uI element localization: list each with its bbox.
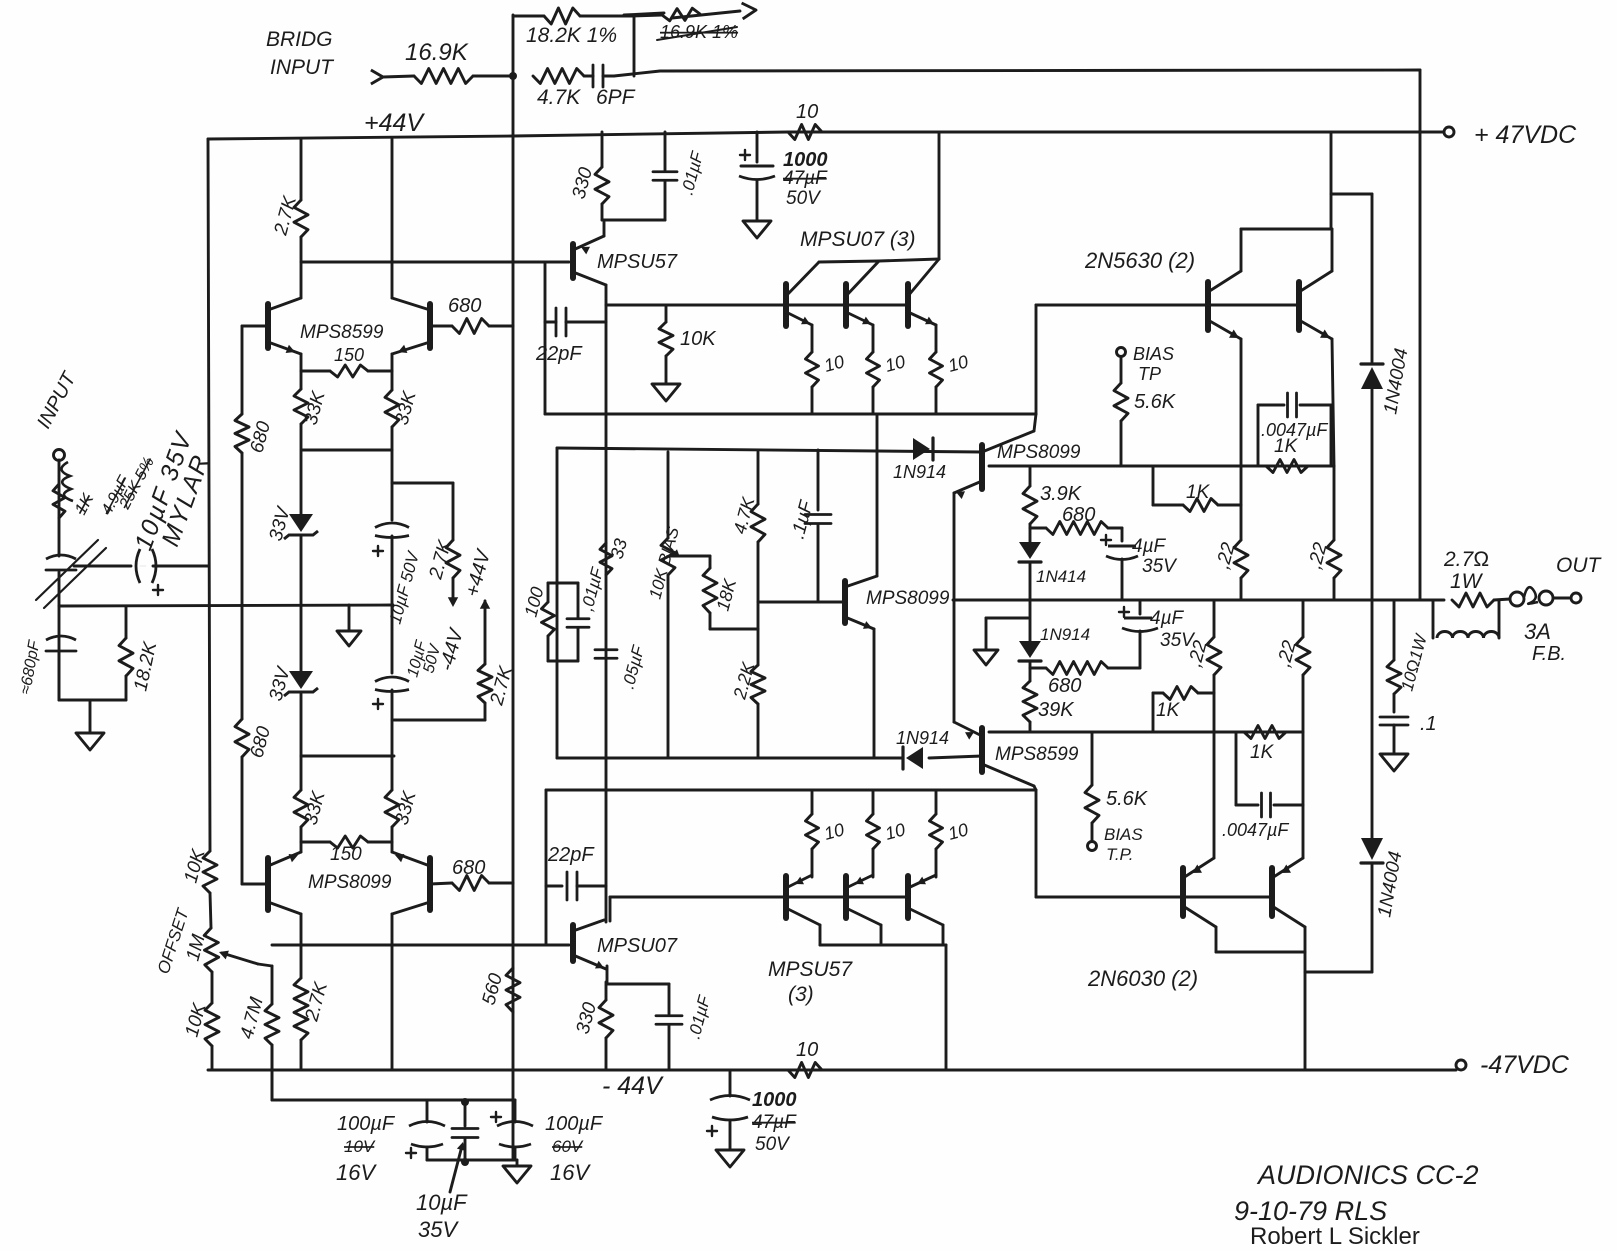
- label 2N5630 (2): [1084, 248, 1195, 273]
- svg-text:4.7K: 4.7K: [537, 86, 581, 109]
- capacitor .1uF: [788, 450, 831, 602]
- resistor 1K (bias chain): [1266, 436, 1308, 473]
- svg-text:2.7Ω: 2.7Ω: [1443, 548, 1489, 571]
- label OFFSET: [154, 905, 193, 976]
- svg-text:5.6K: 5.6K: [1106, 788, 1149, 810]
- resistor 150 (lower emitters): [301, 836, 392, 865]
- resistor 10K (MPSU57 load): [659, 305, 717, 384]
- resistor 5.6K upper: [1114, 383, 1177, 466]
- wire MPSU57 emitter column: [605, 305, 608, 922]
- ground 1000uF bottom: [716, 1150, 744, 1167]
- svg-text:BIAS: BIAS: [1133, 344, 1174, 364]
- svg-text:+ 47VDC: + 47VDC: [1474, 121, 1577, 149]
- resistor 2.2K: [729, 629, 765, 758]
- label INPUT: [33, 367, 81, 432]
- wire 18.2K to 16.9K: [624, 13, 664, 15]
- wire MPSU57 base line: [301, 261, 569, 264]
- capacitor 10uF 35V middle: [416, 1098, 478, 1242]
- wire lower driver bus: [546, 789, 1036, 792]
- capacitor 100uF 16V right: [491, 1100, 604, 1185]
- wire offset to caps: [272, 1045, 515, 1100]
- resistor 2.7K to +44V: [478, 663, 517, 720]
- svg-text:47µF: 47µF: [752, 1112, 797, 1133]
- wire pot wiper to 4.7M: [258, 964, 272, 966]
- resistor 10 e: [867, 790, 908, 877]
- wire arrow out: [672, 3, 756, 19]
- resistor .22 d: [1274, 600, 1310, 858]
- diode 1N914 vert upper: [1019, 542, 1086, 600]
- resistor 330 (upper): [569, 132, 609, 220]
- svg-text:16.9K 1%: 16.9K 1%: [660, 22, 738, 42]
- transistor Q MPSU07 lower: [573, 920, 606, 969]
- capacitor 10uF mylar: [136, 549, 163, 595]
- resistor 4.7K (bias): [730, 452, 765, 629]
- svg-text:50V: 50V: [755, 1134, 791, 1155]
- svg-text:MPSU57: MPSU57: [768, 958, 853, 981]
- potentiometer 1M: [183, 928, 258, 972]
- transistor Q MPS8599 right: [392, 298, 430, 354]
- svg-text:5.6K: 5.6K: [1134, 391, 1177, 413]
- capacitor 10uF 50V upper: [373, 523, 423, 626]
- resistor 10 (top rail): [788, 101, 822, 140]
- wire bias chain lower: [989, 731, 1303, 734]
- wire cap to left rail: [153, 565, 208, 568]
- resistor 10K (lower offset): [182, 1000, 219, 1046]
- svg-text:MPSU07: MPSU07: [597, 935, 678, 957]
- label MPSU07 (3): [800, 228, 916, 251]
- svg-text:10µF: 10µF: [416, 1190, 468, 1215]
- wire feedback top horizontal: [614, 70, 1420, 76]
- wire input lower vertical: [58, 636, 61, 700]
- wire 16.9K to node: [473, 75, 513, 78]
- label 680 lower: [1048, 675, 1081, 697]
- svg-text:INPUT: INPUT: [270, 56, 335, 79]
- transistor Q MPS8099 upper: [954, 414, 1036, 499]
- svg-text:.0047µF: .0047µF: [1222, 820, 1289, 840]
- label +44V: [364, 109, 425, 137]
- wire MPSU07 base bus: [606, 304, 908, 307]
- transistor Q MPSU57: [573, 236, 606, 285]
- capacitor .0047uF lower: [1222, 732, 1303, 840]
- svg-text:2N6030 (2): 2N6030 (2): [1087, 966, 1198, 991]
- wire MPSU57 emitter drop: [605, 285, 608, 305]
- wire 2N5630 collector bus: [1241, 132, 1332, 271]
- capacitor .01uF (lower): [656, 984, 715, 1070]
- resistor 10 a: [806, 325, 847, 414]
- ground diode node: [974, 618, 1028, 665]
- svg-text:MPS8599: MPS8599: [300, 322, 384, 343]
- svg-text:4µF: 4µF: [1132, 536, 1167, 557]
- terminal +47VDC: [1444, 121, 1577, 149]
- svg-text:MPSU57: MPSU57: [597, 251, 678, 273]
- resistor 680 (bias lower): [1030, 662, 1140, 675]
- label 25K 5% (crossed): [116, 454, 158, 512]
- wire mid bus (left): [59, 605, 393, 606]
- resistor 10 d: [806, 790, 847, 877]
- diode 1N4004 lower: [1305, 600, 1406, 972]
- resistor 150 (upper emitters): [301, 345, 392, 377]
- label MPS8099 upper: [997, 442, 1081, 463]
- resistor 680 (upper base left): [235, 326, 275, 605]
- svg-text:10K: 10K: [680, 328, 717, 350]
- wire 22pF column lower: [545, 790, 548, 945]
- svg-text:OUT: OUT: [1556, 554, 1603, 577]
- resistor .22 a: [1213, 339, 1248, 600]
- wire 22pF column to bus: [544, 322, 547, 414]
- wire bias column: [556, 448, 559, 758]
- wire 2N6030 base bus: [1036, 790, 1272, 897]
- wire +44V reference arrow: [462, 546, 496, 664]
- resistor 10 b: [867, 325, 908, 414]
- resistor 18.2K 1%: [513, 8, 634, 47]
- svg-text:100µF: 100µF: [545, 1113, 604, 1135]
- wire vas emitter: [873, 629, 876, 758]
- label AUDIONICS CC-2: [1256, 1160, 1479, 1190]
- inductor output coil: [1433, 600, 1499, 638]
- resistor 680 (lower base left): [235, 605, 275, 884]
- transistor Q MPSU57 a: [786, 875, 820, 945]
- ground 1000uF top: [743, 221, 771, 238]
- wire lower collector chain: [820, 945, 946, 1070]
- capacitor 680pF: [17, 636, 76, 696]
- svg-text:Robert L Sickler: Robert L Sickler: [1250, 1223, 1420, 1250]
- resistor 1K (fb upper): [1153, 466, 1241, 512]
- wire vas base: [758, 601, 843, 604]
- resistor .22 b: [1305, 339, 1341, 600]
- wire top divider run: [634, 15, 662, 16]
- svg-text:35V: 35V: [418, 1217, 459, 1242]
- wire bootstrap top bracket: [392, 482, 453, 485]
- svg-text:22pF: 22pF: [535, 343, 583, 365]
- capacitor .01uF (upper): [653, 132, 708, 220]
- svg-text:1N414: 1N414: [1036, 567, 1086, 586]
- node feedback junction: [509, 72, 517, 80]
- svg-text:1N914: 1N914: [1040, 625, 1090, 644]
- ground bottom caps: [503, 1160, 531, 1183]
- label MPSU57 (3): [768, 958, 853, 1006]
- transistor Q MPS8099 left (lower): [268, 852, 301, 914]
- svg-text:BIAS: BIAS: [1104, 825, 1143, 844]
- wire cap2 to 150 node: [391, 720, 394, 756]
- label MPSU07 lower: [597, 935, 678, 957]
- label MPS8099 lower: [308, 872, 392, 893]
- transistor Q 2N6030 b: [1272, 858, 1305, 927]
- wire -44V/-47V rail: [208, 1069, 1456, 1072]
- ground mid bus: [337, 605, 361, 646]
- svg-text:150: 150: [334, 345, 364, 365]
- transistor Q 2N5630 b: [1299, 271, 1332, 339]
- wire input vertical: [58, 460, 61, 636]
- resistor 2.7K to -44V: [425, 483, 468, 673]
- capacitor 4uF 35V upper: [1101, 528, 1178, 600]
- resistor 33K (upper right): [385, 371, 421, 520]
- svg-text:680: 680: [1048, 675, 1081, 697]
- transistor Q MPS8099 (vas): [845, 576, 877, 629]
- svg-text:680: 680: [1062, 504, 1095, 526]
- resistor 4.7M: [237, 966, 279, 1100]
- wire diode bus lower: [557, 757, 903, 760]
- terminal BIAS TP upper: [1117, 344, 1175, 384]
- label 680 upper: [1062, 504, 1095, 526]
- resistor 100: [521, 583, 578, 661]
- transistor Q MPSU07 a: [786, 262, 819, 326]
- wire MPSU07 emitter drop: [607, 966, 669, 984]
- wire 1N4004 branch: [1331, 193, 1372, 196]
- svg-text:MPS8099: MPS8099: [308, 872, 392, 893]
- resistor 18.2K: [119, 607, 161, 700]
- svg-text:1K: 1K: [1186, 482, 1211, 503]
- resistor 16.9K: [405, 39, 473, 84]
- wire +44V/+47V rail: [208, 132, 1444, 139]
- wire MPSU07 base line: [272, 944, 569, 947]
- svg-text:16V: 16V: [336, 1160, 377, 1185]
- resistor 33K (lower right): [385, 756, 421, 842]
- wire 330/.01 node: [602, 220, 665, 236]
- svg-text:- 44V: - 44V: [602, 1072, 664, 1100]
- wire output rail: [953, 599, 1444, 602]
- terminal BIAS TP lower: [1088, 825, 1144, 864]
- wire MPSU07 collector chain: [819, 132, 939, 262]
- svg-text:6PF: 6PF: [596, 86, 636, 109]
- zener 33V lower: [266, 605, 318, 756]
- diode 1N4004 upper: [1361, 194, 1412, 600]
- wire central vertical rail: [512, 15, 515, 1158]
- wire bootstrap bottom bracket: [394, 719, 485, 722]
- transistor Q MPS8099 right (lower): [392, 852, 430, 914]
- wire feedback right vertical: [1419, 70, 1422, 600]
- resistor 10K (upper offset): [181, 846, 217, 893]
- svg-text:1N914: 1N914: [896, 728, 949, 748]
- resistor 2.7ohm 1W: [1443, 548, 1494, 607]
- wire lower base stub left: [242, 883, 268, 886]
- wire vas collector: [876, 414, 879, 576]
- svg-text:1K: 1K: [1250, 742, 1275, 763]
- wire bias column lower: [556, 661, 558, 758]
- zobel 10ohm 1W: [1387, 600, 1431, 712]
- transistor Q MPSU57 b: [846, 875, 881, 945]
- transistor Q MPSU07 c: [908, 259, 939, 326]
- wire divider box right side: [633, 15, 636, 76]
- resistor 680 (upper base right): [430, 295, 513, 334]
- resistor 10 f: [930, 790, 971, 877]
- svg-text:680: 680: [452, 857, 485, 879]
- svg-text:BRIDG: BRIDG: [266, 28, 333, 51]
- svg-text:39K: 39K: [1038, 699, 1075, 721]
- svg-text:MPS8099: MPS8099: [866, 588, 950, 609]
- ground input: [76, 700, 104, 750]
- transistor Q 2N6030 a: [1183, 858, 1216, 927]
- svg-text:60V: 60V: [552, 1137, 584, 1156]
- wire lower right collector to rail: [391, 914, 394, 1070]
- label author: [1250, 1223, 1420, 1250]
- svg-text:16V: 16V: [550, 1160, 591, 1185]
- resistor 18K: [703, 556, 758, 629]
- capacitor 100uF 16V left: [336, 1100, 445, 1185]
- diode 1N914 (lower bus): [896, 728, 982, 769]
- wire input cap link: [74, 565, 131, 568]
- capacitor 22pF (lower): [546, 844, 606, 900]
- svg-text:9-10-79 RLS: 9-10-79 RLS: [1234, 1196, 1387, 1226]
- svg-text:F.B.: F.B.: [1532, 643, 1566, 665]
- label MPS8099 vas: [866, 588, 950, 609]
- svg-text:680: 680: [448, 295, 481, 317]
- label -44V: [602, 1072, 664, 1100]
- svg-text:50V: 50V: [786, 188, 822, 209]
- potentiometer 10K BIAS: [646, 452, 710, 758]
- resistor input (scribbled out): [53, 462, 98, 518]
- resistor 16.9K 1% (crossed out): [657, 8, 738, 42]
- terminal -47VDC: [1456, 1051, 1570, 1079]
- label MPS8599: [300, 322, 384, 343]
- svg-text:1W: 1W: [1450, 570, 1484, 593]
- svg-text:1K: 1K: [1274, 436, 1299, 457]
- diode 1N914 (upper bus): [893, 438, 946, 482]
- wire left rail: [208, 139, 212, 1070]
- capacitor .0047uF upper: [1258, 393, 1331, 466]
- resistor 680 (lower base right): [430, 857, 513, 891]
- capacitor input (crossed out): [36, 540, 106, 608]
- svg-text:10: 10: [796, 1039, 818, 1061]
- resistor 680 (bias upper): [1030, 522, 1122, 535]
- transistor Q MPS8599 left: [268, 298, 301, 354]
- capacitor 1000uF 50V (bottom): [707, 1070, 797, 1155]
- label 3A F.B.: [1524, 619, 1566, 665]
- wire bridg input arrow: [371, 70, 414, 84]
- capacitor 4uF 35V lower: [1119, 600, 1196, 668]
- wire lower emitter to out: [953, 600, 956, 722]
- svg-text:(3): (3): [788, 983, 814, 1006]
- ground 10K: [652, 384, 680, 401]
- wire upper emitter to out: [953, 493, 956, 600]
- resistor 2.7K (lower left): [294, 914, 332, 1070]
- resistor 560: [479, 968, 520, 1012]
- transistor Q MPSU07 b: [846, 261, 879, 326]
- label MPS8599 lower: [995, 744, 1079, 765]
- svg-text:18.2K 1%: 18.2K 1%: [526, 24, 617, 47]
- svg-text:47µF: 47µF: [783, 168, 828, 189]
- resistor 10 c: [930, 325, 971, 414]
- svg-text:2N5630 (2): 2N5630 (2): [1084, 248, 1195, 273]
- transistor Q 2N5630 a: [1208, 271, 1241, 339]
- node BRIDG INPUT label: [266, 28, 335, 79]
- terminal OUT: [1494, 554, 1603, 606]
- svg-text:MPS8599: MPS8599: [995, 744, 1079, 765]
- wire diode bus upper: [557, 448, 982, 452]
- capacitor 1000uF 50V (top): [739, 132, 828, 221]
- svg-text:.1: .1: [1420, 713, 1437, 735]
- svg-text:3A: 3A: [1524, 619, 1551, 644]
- svg-text:22pF: 22pF: [547, 844, 595, 866]
- capacitor .01uF (bias): [567, 564, 608, 661]
- wire bias chain: [989, 465, 1334, 468]
- svg-text:1000: 1000: [752, 1089, 797, 1111]
- label date: [1234, 1196, 1387, 1226]
- svg-text:10V: 10V: [344, 1137, 376, 1156]
- svg-text:4µF: 4µF: [1150, 608, 1185, 629]
- wire lower base bus: [610, 897, 908, 921]
- terminal input: [54, 450, 65, 461]
- svg-text:3.9K: 3.9K: [1040, 483, 1083, 505]
- wire right collector to rail: [391, 139, 394, 298]
- svg-text:TP: TP: [1138, 364, 1161, 384]
- resistor 5.6K lower: [1085, 732, 1149, 841]
- resistor 1K (bias chain lower): [1244, 726, 1286, 764]
- capacitor 10uF 50V lower: [373, 605, 445, 720]
- wire 2N5630 base bus: [1036, 305, 1299, 414]
- svg-text:T.P.: T.P.: [1106, 845, 1133, 864]
- zener 33V upper: [266, 503, 318, 605]
- svg-text:-47VDC: -47VDC: [1480, 1051, 1570, 1079]
- capacitor .05uF: [595, 642, 649, 691]
- resistor 4.7K: [533, 69, 584, 110]
- resistor 33: [600, 537, 631, 575]
- transistor Q MPS8599 lower: [954, 722, 1036, 790]
- wire caps bottom bus: [427, 1159, 517, 1162]
- svg-text:+44V: +44V: [364, 109, 425, 137]
- capacitor 6PF: [584, 65, 636, 109]
- wire input ground run: [59, 660, 126, 700]
- resistor 2.7K (upper left): [270, 139, 308, 298]
- wire upper emitter bus: [545, 413, 1036, 416]
- svg-text:MPS8099: MPS8099: [997, 442, 1081, 463]
- svg-text:150: 150: [330, 844, 362, 865]
- svg-text:16.9K: 16.9K: [405, 39, 469, 66]
- wire 33K rung: [302, 449, 392, 452]
- resistor .22 c: [1185, 600, 1221, 858]
- svg-text:35V: 35V: [1142, 556, 1178, 577]
- wire 2N6030 collector bus: [1216, 927, 1305, 1070]
- label 2N6030 (2): [1087, 966, 1198, 991]
- label 4.9uF (crossed): [99, 472, 134, 517]
- resistor 1K (fb lower): [1153, 687, 1214, 733]
- svg-text:10: 10: [796, 101, 818, 123]
- label MPSU57: [597, 251, 678, 273]
- resistor 39K lower: [1023, 668, 1075, 732]
- wire base stub left: [242, 325, 268, 328]
- resistor 10 (bottom rail): [788, 1039, 822, 1078]
- label 10uF 35V MYLAR: [129, 427, 215, 554]
- ground zobel: [1380, 754, 1408, 771]
- wire bias TP upper: [1120, 357, 1123, 383]
- resistor 3.9K: [1023, 466, 1083, 543]
- resistor 33K (upper left): [294, 371, 330, 514]
- transistor Q MPSU57 c: [908, 875, 943, 945]
- svg-text:1K: 1K: [1156, 700, 1181, 721]
- wire lower cross bracket: [301, 755, 394, 758]
- svg-text:MPSU07 (3): MPSU07 (3): [800, 228, 916, 251]
- resistor 330 (lower): [573, 982, 613, 1070]
- resistor 33K (lower left): [294, 756, 330, 842]
- capacitor 22pF (upper): [535, 262, 606, 365]
- svg-text:AUDIONICS CC-2: AUDIONICS CC-2: [1256, 1160, 1479, 1190]
- zobel cap .1: [1380, 713, 1437, 754]
- svg-text:1N914: 1N914: [893, 462, 946, 482]
- svg-text:100µF: 100µF: [337, 1113, 396, 1135]
- diode 1N914 vert lower: [1019, 600, 1090, 668]
